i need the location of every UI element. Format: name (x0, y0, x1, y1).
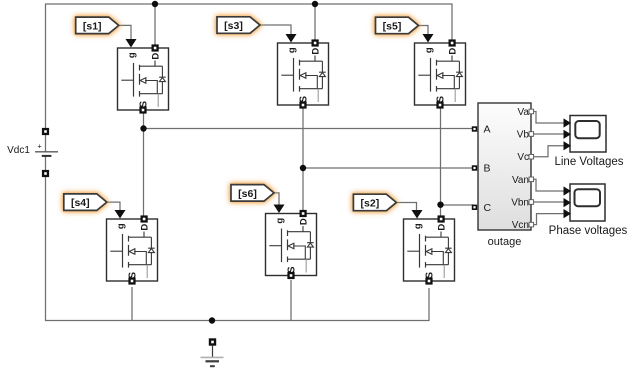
wire phase B vertical (302, 107, 304, 216)
s5 port D (449, 39, 456, 46)
arrowhead scope1 in2 (564, 130, 572, 139)
s6 port D (300, 210, 307, 217)
svg-text:Van: Van (512, 175, 529, 186)
s6 body diode (307, 232, 314, 260)
wire wire Va (531, 112, 564, 124)
s2 port S (425, 277, 432, 284)
Vdc1 minus plate (42, 155, 52, 157)
s6 gate port arrow (274, 205, 285, 214)
s1 source lead (157, 94, 159, 107)
svg-text:[s1]: [s1] (83, 20, 102, 32)
s1 body (118, 48, 169, 110)
s5 gate port arrow (423, 34, 434, 43)
s1 port D (152, 44, 159, 51)
s2 gate lead (407, 250, 419, 252)
From tag [s3] (217, 17, 260, 34)
s2 source stub (426, 252, 449, 265)
s1 body diode (159, 66, 166, 94)
wire s3 drain riser (314, 4, 316, 42)
svg-text:g: g (274, 218, 285, 224)
s6 channel dashes (287, 230, 289, 262)
outage output ports (529, 109, 534, 227)
svg-text:D: D (298, 218, 309, 225)
s4 gate port arrow (115, 210, 126, 219)
subsystem outage (472, 103, 534, 248)
s5 port S (436, 101, 443, 108)
wire tag wire s6 (274, 193, 279, 205)
ground bars (201, 356, 224, 358)
svg-text:Phase voltages: Phase voltages (549, 225, 627, 237)
junction node B (300, 165, 306, 171)
s1 port S (139, 106, 146, 113)
s3 drain stub (300, 56, 323, 62)
svg-text:A: A (484, 124, 491, 136)
s5 channel dashes (436, 60, 438, 92)
svg-text:Vdc1: Vdc1 (7, 145, 30, 156)
wire wire Vc (531, 146, 564, 157)
junction node s1-D on top rail (152, 1, 158, 7)
svg-text:D: D (436, 224, 447, 231)
s6 port S (287, 272, 294, 279)
s4 port D (141, 215, 148, 222)
s4 port S (128, 277, 135, 284)
svg-text:g: g (126, 52, 137, 58)
junction node ground tap (209, 317, 215, 323)
Vdc1 port top (42, 128, 49, 135)
s2 channel dashes (425, 236, 427, 268)
s3 gate port arrow (286, 34, 297, 43)
s2 port D (438, 215, 445, 222)
MOSFET s4 (107, 210, 158, 285)
wire s1 drain riser (154, 4, 156, 46)
junction node C (437, 202, 443, 208)
wire phase B to outage (303, 167, 474, 169)
svg-text:D: D (139, 224, 150, 231)
DC source Vdc1 (7, 128, 58, 177)
s5 body diode (456, 61, 463, 88)
s1 gate lead (121, 79, 133, 81)
s4 drain stub (129, 232, 152, 238)
s2 source arrow (426, 249, 432, 255)
scope Phase voltages (549, 184, 627, 237)
s4 source stub (129, 252, 152, 265)
outage port B (472, 165, 477, 170)
svg-text:C: C (484, 202, 492, 214)
wire tag wire s5 (419, 25, 429, 34)
svg-text:B: B (484, 163, 491, 175)
From tag [s4] (64, 194, 107, 211)
wire wire Vb (531, 133, 564, 135)
arrowhead scope2 in1 (564, 186, 572, 195)
s1 gate bar (133, 63, 135, 97)
From tag [s6] (231, 185, 274, 202)
ground stem (212, 346, 214, 357)
s4 channel dashes (128, 236, 130, 268)
wire bottom DC return rail (46, 174, 430, 321)
svg-text:D: D (447, 48, 458, 55)
s3 channel dashes (299, 60, 301, 92)
svg-text:g: g (115, 223, 126, 229)
s5 source lead (454, 89, 456, 102)
wire phase A vertical (143, 112, 145, 216)
s3 source lead (317, 89, 319, 102)
s1 channel dashes (139, 65, 141, 97)
s5 source stub (437, 76, 460, 89)
s5 gate lead (418, 74, 430, 76)
wire phase C to outage (441, 204, 475, 206)
outage port A (472, 126, 477, 131)
s6 source stub (288, 246, 311, 259)
svg-text:[s3]: [s3] (224, 20, 243, 32)
svg-text:Line Voltages: Line Voltages (554, 156, 623, 168)
wire wire Vcn (531, 214, 564, 225)
s5 body (415, 43, 466, 105)
s3 gate bar (293, 58, 295, 92)
s1 source stub (140, 81, 163, 94)
s4 gate bar (122, 234, 124, 268)
s6 source arrow (288, 243, 294, 249)
svg-text:Va: Va (518, 107, 530, 118)
svg-text:[s5]: [s5] (383, 20, 402, 32)
s5 source arrow (437, 73, 443, 79)
arrowhead scope2 in3 (564, 209, 572, 218)
svg-text:[s6]: [s6] (238, 188, 257, 200)
s5 drain stub (437, 56, 460, 62)
s1 source arrow (140, 78, 146, 84)
svg-text:D: D (150, 53, 161, 60)
svg-text:outage: outage (488, 236, 522, 248)
s3 source arrow (300, 73, 306, 79)
wire wire Vbn (531, 201, 564, 203)
Vdc1 port bottom (42, 170, 49, 177)
s4 body (107, 219, 158, 281)
MOSFET s6 (266, 205, 317, 280)
s6 body (266, 214, 317, 276)
ground port (209, 338, 216, 345)
s4 body diode (148, 237, 155, 265)
s2 body (404, 219, 455, 281)
svg-text:[s4]: [s4] (71, 197, 90, 209)
svg-text:g: g (286, 47, 297, 53)
s2 drain stub (426, 232, 449, 238)
svg-text:[s2]: [s2] (361, 197, 380, 209)
junction node A (140, 125, 146, 131)
s2 gate bar (419, 234, 421, 268)
s3 port D (312, 39, 319, 46)
svg-text:g: g (412, 223, 423, 229)
s6 drain stub (288, 226, 311, 232)
svg-text:Vbn: Vbn (511, 198, 529, 209)
wire top DC bus rail (46, 4, 453, 131)
svg-text:+: + (37, 142, 42, 151)
svg-text:g: g (423, 47, 434, 53)
wire phase A to outage (144, 128, 475, 130)
s3 port S (299, 101, 306, 108)
s3 gate lead (281, 74, 293, 76)
wire s6 source drop (290, 280, 292, 321)
outage port C (472, 205, 477, 210)
arrowhead scope2 in2 (564, 198, 572, 207)
ground (201, 338, 224, 366)
svg-text:Vcn: Vcn (512, 220, 529, 231)
svg-text:Vc: Vc (517, 152, 529, 163)
From tag [s2] (353, 194, 396, 211)
s4 source lead (146, 265, 148, 278)
s2 body diode (445, 237, 452, 265)
s2 source lead (443, 265, 445, 278)
s3 body diode (319, 61, 326, 88)
wire phase C vertical (440, 106, 442, 216)
s4 gate lead (110, 250, 122, 252)
wire wire Van (531, 179, 564, 191)
s6 gate lead (269, 245, 281, 247)
arrowhead scope1 in1 (564, 118, 572, 127)
junction node s3-D on top rail (312, 1, 318, 7)
From tag [s1] (76, 17, 119, 33)
s1 gate port arrow (126, 39, 137, 48)
From tag [s5] (376, 17, 419, 34)
wire tag wire s4 (107, 202, 120, 210)
MOSFET s1 (118, 39, 169, 114)
s1 drain stub (140, 61, 163, 67)
svg-text:D: D (310, 48, 321, 55)
Vdc1 leads (45, 135, 47, 170)
wire tag wire s2 (396, 202, 416, 210)
s4 source arrow (129, 249, 135, 255)
MOSFET s3 (278, 34, 329, 109)
MOSFET s5 (415, 34, 466, 109)
Vdc1 plus plate (35, 151, 58, 153)
s5 gate bar (430, 58, 432, 92)
s3 source stub (300, 76, 323, 89)
wire tag wire s3 (260, 25, 291, 34)
scope Line Voltages (554, 116, 623, 169)
MOSFET s2 (404, 210, 455, 285)
s3 body (278, 43, 329, 105)
s6 source lead (305, 259, 307, 272)
svg-text:Vb: Vb (517, 130, 530, 141)
wire tag wire s1 (119, 25, 131, 40)
s6 gate bar (281, 229, 283, 263)
arrowhead scope1 in3 (564, 141, 572, 150)
wire s4 source drop (131, 287, 133, 321)
s2 gate port arrow (412, 210, 423, 219)
